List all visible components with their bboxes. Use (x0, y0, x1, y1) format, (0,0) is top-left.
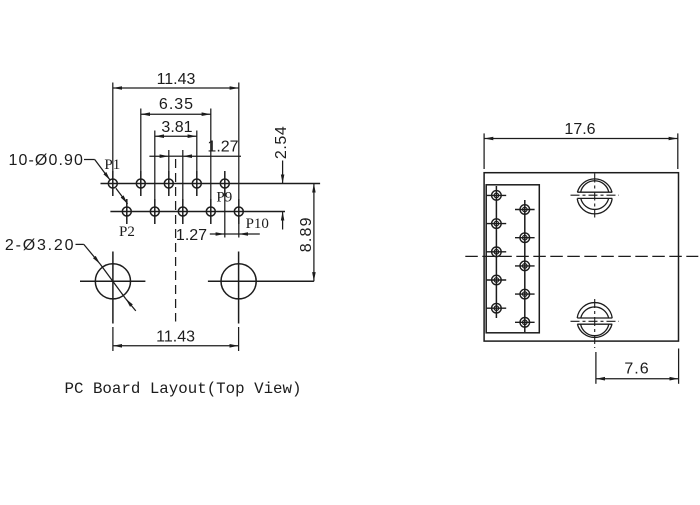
jack screw top centerlines (594, 174, 596, 218)
dim 7.6 extension lines (595, 352, 597, 384)
dim 1.27 upper extension lines (168, 150, 170, 171)
diameter chord (100, 264, 125, 299)
bottom row pin 3 (178, 207, 187, 216)
right column pin 5 (515, 318, 535, 328)
svg-text:6.35: 6.35 (159, 96, 194, 113)
dim 11.43 top extension lines (112, 83, 114, 172)
dim 6.35 extension lines (140, 109, 142, 172)
left column pin 5 (487, 303, 507, 313)
dim 11.43 top line (113, 87, 239, 89)
svg-text:10-Ø0.90: 10-Ø0.90 (9, 152, 85, 169)
svg-text:8.89: 8.89 (298, 216, 315, 252)
svg-text:1.27: 1.27 (176, 227, 207, 244)
dim 11.43 bottom line (113, 345, 239, 347)
right column pin 1 (515, 205, 535, 215)
top row pin 3 (164, 179, 173, 188)
dim 3.81 line (155, 135, 197, 137)
dim 7.6 line (596, 378, 679, 380)
leader 10-dia0.90 (84, 159, 95, 161)
svg-text:P2: P2 (119, 224, 135, 240)
left column pin 3 (487, 247, 507, 257)
dim 8.89 line (313, 184, 315, 282)
svg-text:P10: P10 (246, 216, 269, 232)
leader 2-dia3.20 (76, 243, 84, 245)
svg-text:3.81: 3.81 (161, 119, 192, 136)
left column pin 4 (487, 275, 507, 285)
svg-text:2-Ø3.20: 2-Ø3.20 (5, 237, 75, 254)
right column pin 2 (515, 233, 535, 243)
jack screw top (577, 179, 612, 214)
bottom row pin 2 (150, 207, 159, 216)
dim 1.27 lower extension lines (224, 196, 226, 238)
dim 17.6 extension lines (483, 133, 485, 169)
svg-text:1.27: 1.27 (207, 139, 238, 156)
top row axis line (101, 183, 321, 185)
node P10 bottom row pin 5 (234, 207, 243, 216)
dim 3.81 extension lines (154, 131, 156, 200)
node P2 bottom row pin 1 (122, 207, 131, 216)
right column pin 3 (515, 261, 535, 271)
left column pin 2 (487, 219, 507, 229)
svg-text:7.6: 7.6 (624, 361, 649, 378)
svg-text:17.6: 17.6 (564, 121, 595, 138)
main horizontal centerline (465, 255, 698, 257)
connector body outline (484, 173, 678, 341)
dim 1.27 upper line with outside arrows (149, 155, 168, 157)
dim 17.6 line (484, 138, 678, 140)
top row pin 4 (192, 179, 201, 188)
node P1 top row pin 1 (108, 179, 117, 188)
svg-text:11.43: 11.43 (157, 71, 196, 88)
bottom row pin 4 (206, 207, 215, 216)
centerline left view (175, 159, 177, 322)
dim 11.43 bottom extension lines (112, 327, 114, 351)
left pin column axis (495, 186, 497, 318)
jack screw bottom centerlines (594, 299, 596, 348)
svg-text:2.54: 2.54 (273, 126, 290, 160)
mounting hole left (95, 264, 130, 299)
dim 1.27 lower line with outside arrows (210, 233, 225, 235)
top row pin 2 (136, 179, 145, 188)
svg-text:PC Board Layout(Top View): PC Board Layout(Top View) (65, 380, 302, 398)
mounting hole right (221, 264, 256, 299)
bottom row axis line (110, 211, 285, 213)
svg-text:P1: P1 (104, 157, 120, 173)
dim 2.54 line with outside arrows (282, 161, 284, 184)
jack screw bottom (577, 303, 612, 338)
insulator inner rectangle (486, 185, 539, 333)
left column pin 1 (487, 191, 507, 201)
node P9 top row pin 5 (220, 179, 229, 188)
dim 6.35 line (141, 113, 211, 115)
svg-text:P9: P9 (216, 189, 232, 205)
right column pin 4 (515, 289, 535, 299)
svg-text:11.43: 11.43 (156, 329, 195, 346)
right pin column axis (524, 200, 526, 332)
